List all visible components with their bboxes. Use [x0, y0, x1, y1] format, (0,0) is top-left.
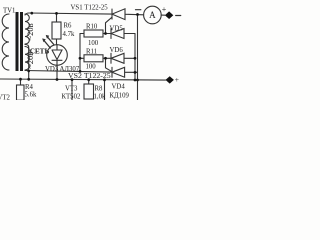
svg-text:A: A	[149, 10, 156, 20]
svg-text:R4: R4	[25, 84, 34, 91]
svg-text:VD6: VD6	[110, 47, 124, 54]
svg-text:КД109: КД109	[110, 92, 130, 99]
svg-text:R8: R8	[95, 86, 104, 93]
svg-text:VS2 Т122-25: VS2 Т122-25	[68, 71, 111, 80]
svg-text:VD4: VD4	[112, 83, 126, 90]
svg-text:VS1 Т122-25: VS1 Т122-25	[71, 5, 109, 12]
svg-text:R10: R10	[86, 24, 98, 31]
svg-text:100: 100	[88, 40, 99, 47]
svg-text:КТ502: КТ502	[62, 93, 81, 100]
svg-text:VD3: VD3	[45, 66, 59, 73]
svg-text:TV1: TV1	[3, 8, 15, 15]
svg-text:1,0k: 1,0k	[94, 93, 106, 100]
svg-text:100: 100	[86, 64, 97, 71]
svg-text:СЕТЬ: СЕТЬ	[30, 48, 50, 56]
svg-text:+: +	[175, 75, 179, 84]
svg-text:R11: R11	[86, 48, 97, 55]
svg-text:R6: R6	[64, 23, 73, 30]
svg-text:4.7k: 4.7k	[63, 31, 75, 38]
svg-text:+: +	[162, 5, 167, 14]
svg-text:VD5: VD5	[110, 26, 124, 33]
svg-text:~20в: ~20в	[25, 23, 35, 40]
svg-text:5.6k: 5.6k	[25, 92, 37, 99]
svg-text:VT2: VT2	[0, 95, 11, 101]
svg-text:VT3: VT3	[65, 86, 78, 93]
